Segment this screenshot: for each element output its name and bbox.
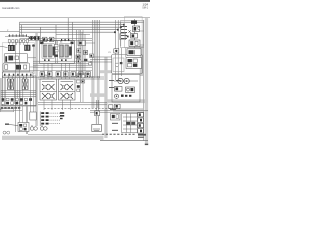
thick gray band right of upper boxes xyxy=(140,46,143,76)
gauge G1b pair xyxy=(40,125,47,130)
center vertical wire bundle xyxy=(92,20,99,78)
MCV bottom-left outline xyxy=(0,109,14,112)
lower pilot lines xyxy=(20,39,93,41)
bottom wire y134.5 xyxy=(28,134,104,136)
MCV lower rail lines xyxy=(1,105,37,110)
F1 wire to right xyxy=(28,57,36,59)
schematic right border line xyxy=(143,20,145,141)
F2 wire to right xyxy=(30,66,37,68)
left tiny valve chain xyxy=(77,49,81,63)
pump assembly frame xyxy=(112,75,140,103)
right group left border wire xyxy=(120,48,122,76)
right page-margin gray band xyxy=(145,18,148,143)
junction block dark marks xyxy=(31,36,40,40)
assembly frame left sub-box xyxy=(113,58,124,72)
thick gray frame band vertical x97 xyxy=(97,76,100,108)
shockless valve frame F2 xyxy=(3,63,30,72)
right vertical wire x118 xyxy=(117,20,119,80)
left pilot group boundary xyxy=(2,43,34,74)
pressure sensor box top xyxy=(78,41,95,46)
small filter above tank xyxy=(95,111,100,116)
vertical wire x75-78 pair going down xyxy=(77,30,86,77)
svg-text:BM: BM xyxy=(44,75,47,77)
PV1 label leader xyxy=(0,46,8,47)
center group corner caps xyxy=(41,42,74,45)
bottom-left label leader xyxy=(5,123,18,125)
pilot bus line 5 xyxy=(20,31,116,33)
small check valve center xyxy=(84,51,88,55)
bottom-right port labels column xyxy=(110,109,118,130)
misc small text labels scattered xyxy=(7,30,111,77)
header date text line 2 xyxy=(142,7,148,10)
small check valve center2 xyxy=(76,55,80,59)
gauge G2 pair bottom far left xyxy=(3,131,10,134)
spool bottom tick marks xyxy=(44,59,67,61)
suction strainer cluster xyxy=(111,114,121,121)
center valve stack V1 xyxy=(42,44,55,58)
right vertical wire x120 xyxy=(120,22,122,46)
right top solenoid block SB1 xyxy=(131,21,137,24)
pump shaft wire xyxy=(114,80,138,82)
drop wire x56 xyxy=(55,25,57,44)
right group inner border wire xyxy=(125,48,127,57)
accumulator blob left xyxy=(5,56,7,62)
terminal strip bus line xyxy=(5,36,40,38)
return filter cluster xyxy=(109,104,121,108)
page background xyxy=(0,0,150,150)
MCV internal bus lines xyxy=(1,91,37,97)
right port-label column xyxy=(109,81,120,88)
shockless valve frame F1 xyxy=(4,54,28,63)
MCV spool pair A with hatch xyxy=(8,76,14,90)
MCV right edge vertical wires xyxy=(31,76,34,114)
tank T1 xyxy=(92,100,102,132)
right top solenoid block SB3 xyxy=(131,34,138,39)
travel valve block left xyxy=(40,79,57,100)
drop wire x40 xyxy=(39,27,41,44)
pilot valve assembly PV1 (dark) xyxy=(8,45,15,51)
oil cooler box xyxy=(127,49,141,56)
terminal tick row top-left xyxy=(8,34,27,36)
right top solenoid block SB2 xyxy=(133,26,140,32)
thick gray frame band vertical x104 xyxy=(104,57,107,138)
center-right junction cluster xyxy=(77,73,91,91)
pump port marks xyxy=(121,95,131,97)
manifold center dark marks xyxy=(126,122,135,125)
bottom-left valve cluster xyxy=(18,123,29,132)
small box outline near bus ends xyxy=(120,34,126,40)
right top cluster extras xyxy=(125,17,144,48)
svg-text:manualslib.com: manualslib.com xyxy=(2,7,19,10)
drop wire x72 xyxy=(71,22,73,40)
pilot bus line 1 xyxy=(20,21,144,23)
bus left drop wire x19.5 xyxy=(19,22,21,36)
MCV bottom marks row xyxy=(1,107,21,109)
thick gray frame band vertical x36 xyxy=(35,33,38,126)
long vertical wire x22.5 xyxy=(22,106,24,130)
bottom dashes row xyxy=(102,133,136,135)
regulator block right xyxy=(126,87,135,92)
bottom page-margin gray band xyxy=(2,136,104,140)
pilot pump P3 xyxy=(114,94,118,98)
thick gray frame band vertical x91 xyxy=(91,76,94,108)
main control valve MCV frame xyxy=(3,76,37,106)
long vertical pilot wire x19.5b xyxy=(19,40,21,132)
thick gray frame band horizontal y108 right xyxy=(113,108,143,111)
pump P1 xyxy=(118,78,123,83)
right top cluster spine wire xyxy=(133,19,135,48)
MCV lower port blocks row2 xyxy=(2,102,28,105)
wire bus under valve stacks xyxy=(33,61,92,67)
MCV inner vertical wires xyxy=(15,78,23,104)
bus end tick marks xyxy=(114,24,125,33)
bus above travel valves xyxy=(38,77,104,79)
browser top bar xyxy=(0,0,150,2)
pilot valve assembly PV2 (dark) xyxy=(24,45,30,51)
wires below travel valves xyxy=(38,103,107,105)
right top solenoid block SB4 xyxy=(129,40,140,47)
MCV lower port blocks row1 xyxy=(2,98,33,101)
travel block down stubs xyxy=(44,100,71,110)
gauge G1 xyxy=(30,125,37,130)
long vertical wire x27 xyxy=(26,106,28,134)
center small cluster marks xyxy=(84,54,94,65)
pilot bus line 2 xyxy=(20,24,125,26)
bottom-right valve stack xyxy=(138,113,144,134)
terminal stub wires xyxy=(9,42,27,45)
shuttle valve near x115 xyxy=(114,49,119,53)
thick gray frame band horizontal y98 xyxy=(105,99,148,103)
right assembly rounded frame xyxy=(112,55,143,74)
pilot bus line 4 xyxy=(20,29,119,31)
center valve group outer frame xyxy=(40,41,75,64)
terminal box row xyxy=(8,40,28,43)
pump P2 xyxy=(124,78,129,83)
center valve stack V2 xyxy=(60,44,72,58)
center group middle column xyxy=(54,41,58,63)
pilot cap stubs above frame xyxy=(43,39,69,41)
junction box row2 xyxy=(43,37,54,41)
center-right vertical wires x80-85 xyxy=(81,30,84,102)
svg-text:SM-1: SM-1 xyxy=(142,7,148,10)
drop wire x68 xyxy=(67,18,69,40)
header rule xyxy=(0,17,150,19)
check valve box xyxy=(126,58,142,69)
bottom border wire of right section xyxy=(100,140,148,142)
double wire y110.5 right xyxy=(90,110,148,112)
right top label ticks xyxy=(121,27,127,39)
bottom-left filter box xyxy=(30,112,36,120)
header date text line 1 xyxy=(143,2,149,6)
bottom-right valve manifold frame xyxy=(122,114,138,133)
relief valve pair marks xyxy=(28,36,35,39)
left manifold row of valves xyxy=(3,71,93,78)
right mid horizontal wires xyxy=(90,57,112,62)
pilot bus line 3 xyxy=(20,26,122,28)
inter-row vertical connectors xyxy=(44,64,70,80)
left group right-edge wire xyxy=(33,44,35,72)
right top valve cluster frame xyxy=(121,21,144,48)
bottom-center accumulator rows xyxy=(40,112,60,127)
regulator block left xyxy=(115,87,123,92)
MCV left edge wires xyxy=(1,78,6,110)
travel valve block right xyxy=(59,79,76,100)
right vertical wire x115 xyxy=(115,20,117,80)
dashed section divider xyxy=(44,108,120,110)
header URL text xyxy=(2,7,19,10)
long vertical pilot wire x15.5 xyxy=(15,40,17,132)
bottom-right inner wires xyxy=(123,114,137,133)
small marks right of PV2 xyxy=(32,45,35,47)
small connector marks x60 xyxy=(60,112,64,119)
header-left wire y31.6 xyxy=(0,31,20,33)
title block marks bottom right xyxy=(138,134,148,145)
MCV spool pair B with hatch xyxy=(22,76,28,90)
thick gray frame band horizontal y70 xyxy=(100,70,112,73)
pilot bus line 6 xyxy=(56,34,90,36)
bus drop wire x21.5 xyxy=(21,25,23,37)
thick gray frame band horizontal y93 xyxy=(90,93,105,97)
